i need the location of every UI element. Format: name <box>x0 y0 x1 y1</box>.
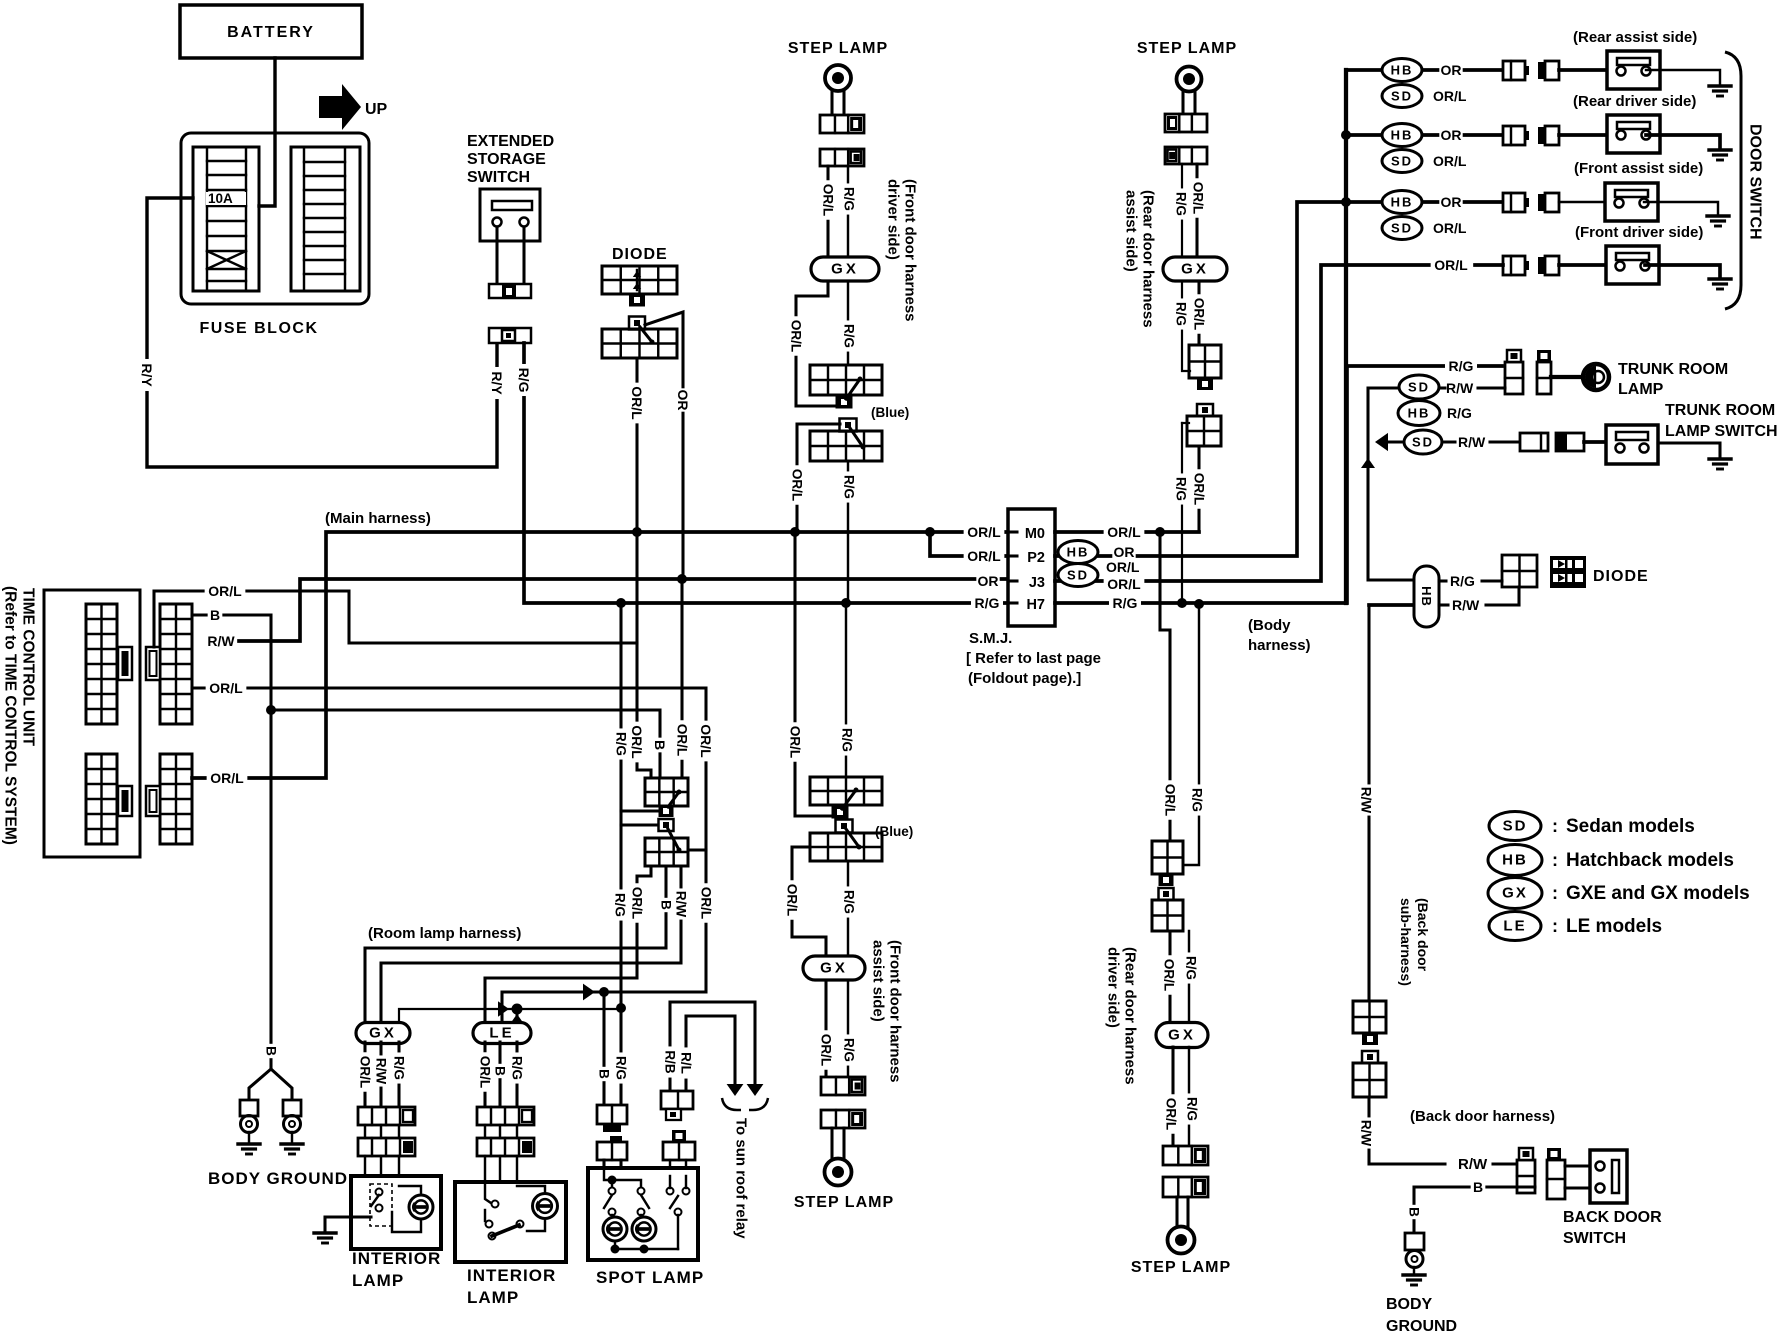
label OR row1 <box>1439 62 1462 80</box>
svg-text:R/W: R/W <box>674 891 689 918</box>
interior lamp 1 label <box>352 1249 441 1290</box>
connector HB trunk <box>1398 401 1440 426</box>
svg-text:R/G: R/G <box>1449 358 1474 374</box>
svg-text:(Foldout page).]: (Foldout page).] <box>968 670 1081 687</box>
chain2 connector lower <box>1187 404 1221 446</box>
back door switch label <box>1563 1209 1662 1247</box>
wire R/W TCU to S.M.J. J3 row <box>205 579 1008 651</box>
wire OR/L from diode to M0 line and room lamp connector <box>629 358 651 778</box>
svg-text:10A: 10A <box>208 191 233 206</box>
arrow sunroof 2 <box>727 1084 744 1096</box>
rear chain connector upper <box>1152 841 1183 886</box>
junction spot lamp B <box>599 987 609 997</box>
wire door row3 <box>1346 200 1503 204</box>
svg-text:R/G: R/G <box>614 1056 629 1080</box>
interior lamp 2 connector 2 <box>477 1138 534 1156</box>
junction R/G chain2 left <box>1177 598 1187 608</box>
junction spot lamp R/G <box>616 1003 626 1013</box>
label R/G GX2 bypass <box>1173 298 1189 329</box>
wire OR/L step lamp 1 to GX <box>820 166 836 257</box>
svg-text:OR/L: OR/L <box>1433 220 1467 236</box>
svg-text:R/Y: R/Y <box>139 363 155 387</box>
wire OR/L P2 <box>930 532 1008 556</box>
wire door row3 to switch <box>1559 201 1605 203</box>
svg-text:(Front door harness: (Front door harness <box>887 940 904 1083</box>
interior lamp connector 1 <box>358 1107 415 1125</box>
label front door harness assist side <box>870 940 904 1083</box>
label main harness <box>325 510 431 527</box>
svg-text:(Rear assist side): (Rear assist side) <box>1573 29 1697 46</box>
svg-text:R/W: R/W <box>1458 1156 1488 1173</box>
wire R/G from storage switch to S.M.J. H7 <box>516 343 1008 603</box>
junction OR/L M0 chain1 <box>790 527 800 537</box>
svg-text:OR/L: OR/L <box>629 386 645 420</box>
wire R/G to GX 4 <box>1183 931 1199 1023</box>
step lamp 4 label <box>1131 1259 1231 1276</box>
svg-text:GX: GX <box>369 1025 397 1042</box>
svg-text:SD: SD <box>1391 89 1413 104</box>
svg-text:HB: HB <box>1391 128 1414 143</box>
label OR/L row3 <box>1433 220 1467 236</box>
label OR/L M0 <box>964 524 1005 542</box>
legend GX <box>1488 878 1750 909</box>
wire B TCU to body ground <box>192 607 271 1042</box>
svg-text:OR/L: OR/L <box>1192 473 1207 505</box>
wire OR/L GX 2 down <box>1191 281 1207 345</box>
room lamp connector lower <box>645 819 688 866</box>
sunroof brace <box>722 1098 768 1110</box>
svg-text:INTERIOR: INTERIOR <box>352 1249 441 1268</box>
diode D2 <box>1550 556 1586 588</box>
svg-text:SD: SD <box>1391 221 1413 236</box>
label R/G HB pill <box>1450 573 1475 589</box>
trunk room lamp switch label <box>1665 402 1778 440</box>
door switch rear driver <box>1607 115 1660 153</box>
svg-text:SD: SD <box>1067 568 1089 583</box>
svg-text:R/G: R/G <box>842 475 857 499</box>
svg-text:OR/L: OR/L <box>698 724 714 758</box>
svg-text:B: B <box>210 607 220 623</box>
chain2 connector upper <box>1189 345 1221 390</box>
wire OR/L chain2 to M0 row <box>1191 446 1207 532</box>
trunk connector 1 <box>1505 350 1523 394</box>
door switch bracket <box>1725 52 1741 309</box>
svg-text:GXE and GX models: GXE and GX models <box>1566 883 1750 904</box>
battery <box>180 5 362 58</box>
wire R/W back door vertical <box>1358 605 1374 1001</box>
svg-text:OR: OR <box>1441 62 1462 78</box>
label rear door harness assist side <box>1123 190 1157 328</box>
svg-text::: : <box>1552 883 1558 903</box>
wire OR/L J3 branch to room lamp connector <box>674 581 690 778</box>
svg-text:R/W: R/W <box>1458 434 1486 450</box>
wire trunk lamp <box>1551 375 1583 379</box>
fuse block <box>181 133 369 304</box>
wire OR/L TCU row3 <box>192 680 714 992</box>
svg-text:R/G: R/G <box>613 893 628 917</box>
blue connector lower <box>810 419 882 462</box>
svg-text:R/G: R/G <box>1185 1097 1200 1121</box>
label fuse block <box>200 320 319 337</box>
svg-text:B: B <box>1407 1207 1422 1217</box>
label front driver side <box>1575 224 1703 241</box>
wire door row2 to switch <box>1559 133 1607 137</box>
label rear door harness driver side <box>1105 947 1139 1085</box>
svg-text:(Body: (Body <box>1248 617 1291 634</box>
wire OR/L step lamp 2 to GX 2 <box>1190 164 1206 258</box>
wires LE to interior lamp connector <box>477 1042 525 1107</box>
label to sun roof relay <box>733 1118 750 1239</box>
svg-text:R/G: R/G <box>842 187 857 211</box>
label R/G H7 <box>971 595 1003 613</box>
wire R/G spot lamp <box>613 1008 629 1105</box>
wire battery to fuse block <box>259 58 275 206</box>
connector LE interior <box>473 1023 531 1044</box>
svg-text:OR/L: OR/L <box>967 524 1001 540</box>
connector HB row1 <box>1382 59 1422 82</box>
wires spot lamp in <box>604 1160 621 1176</box>
svg-text:OR: OR <box>675 390 691 411</box>
trunk switch connector 1 <box>1520 433 1548 451</box>
time control unit harness connectors <box>146 604 192 844</box>
wire R/G H7 to room lamp connector <box>612 603 658 1007</box>
body ground terminal left 2 <box>283 1100 301 1143</box>
svg-text:R/Y: R/Y <box>489 371 505 395</box>
svg-text:GX: GX <box>1181 261 1209 278</box>
step lamp 1 connector <box>820 115 864 133</box>
svg-text:(Main harness): (Main harness) <box>325 510 431 527</box>
svg-text:OR/L: OR/L <box>1433 88 1467 104</box>
junction OR J3 <box>677 574 687 584</box>
label OR row2 <box>1439 127 1462 145</box>
svg-text:OR/L: OR/L <box>1106 559 1140 575</box>
svg-text:R/W: R/W <box>374 1058 389 1085</box>
svg-text:STORAGE: STORAGE <box>467 151 546 168</box>
ground door row1 <box>1709 86 1731 96</box>
legend SD <box>1489 812 1695 841</box>
lower blue connector upper <box>810 777 882 819</box>
junction B <box>266 705 276 715</box>
spot lamp connector 1 <box>597 1105 627 1132</box>
connector SD trunk <box>1399 375 1439 399</box>
ground interior lamp <box>314 1233 336 1243</box>
step lamp 4 <box>1168 1197 1195 1254</box>
ground body right <box>1403 1275 1425 1285</box>
lower blue connector lower <box>810 820 882 862</box>
label R/W trunk <box>1446 380 1474 396</box>
label back door sub-harness <box>1398 898 1431 986</box>
wire R/G bundle line 5 <box>399 1009 621 1024</box>
svg-text:OR/L: OR/L <box>358 1056 373 1088</box>
svg-text:SD: SD <box>1408 380 1430 395</box>
S.M.J. note <box>966 630 1101 687</box>
svg-text:OR: OR <box>1114 544 1135 560</box>
connector GX interior <box>356 1023 410 1044</box>
svg-text:R/B: R/B <box>663 1050 678 1074</box>
door row4 connectors <box>1503 256 1559 275</box>
svg-text:OR/L: OR/L <box>788 726 803 758</box>
legend LE <box>1489 912 1662 941</box>
ground door row3 <box>1707 216 1729 226</box>
wire R/W HB pill <box>1439 603 1519 606</box>
wire OR/L bundle line 4 <box>502 992 604 1024</box>
svg-text:(Blue): (Blue) <box>871 405 909 420</box>
body ground terminal left 1 <box>240 1100 258 1143</box>
connector SD trunk switch <box>1404 430 1442 454</box>
svg-text:R/G: R/G <box>1113 595 1138 611</box>
svg-text:BODY: BODY <box>1386 1296 1433 1313</box>
spot lamp connector 3 <box>661 1091 693 1120</box>
svg-text:STEP LAMP: STEP LAMP <box>1131 1259 1231 1276</box>
door switch front assist <box>1605 183 1658 221</box>
svg-text:OR/L: OR/L <box>1164 1098 1179 1130</box>
wire R/G GX3 to step lamp connector <box>841 981 857 1077</box>
svg-text:R/G: R/G <box>1450 573 1475 589</box>
diode D2 label <box>1593 568 1649 585</box>
junction OR/L diode-M0 <box>632 527 642 537</box>
svg-text:To sun roof relay: To sun roof relay <box>733 1118 750 1239</box>
wire R/G lower blue to GX 3 <box>841 861 857 956</box>
wire B to body ground split <box>249 1042 292 1100</box>
diode D1 <box>602 266 677 307</box>
wires GX to interior lamp connector <box>357 1042 407 1107</box>
svg-text:OR: OR <box>1441 127 1462 143</box>
svg-text:BATTERY: BATTERY <box>227 24 315 41</box>
wire OR P2 to door switch bus <box>1055 202 1346 556</box>
svg-text:B: B <box>652 740 668 750</box>
step lamp 4 harness connector <box>1163 1146 1208 1165</box>
svg-text:(Room lamp harness): (Room lamp harness) <box>368 925 521 942</box>
connector HB row3 <box>1382 191 1422 214</box>
svg-text:DIODE: DIODE <box>1593 568 1649 585</box>
blue connector upper <box>810 365 882 409</box>
step lamp 2 connector <box>1165 114 1207 132</box>
svg-text:TRUNK ROOM: TRUNK ROOM <box>1618 361 1728 378</box>
svg-text:SD: SD <box>1391 154 1413 169</box>
svg-text:FUSE BLOCK: FUSE BLOCK <box>200 320 319 337</box>
arrow sunroof 1 <box>747 1084 764 1096</box>
svg-text:LE models: LE models <box>1566 916 1662 937</box>
label OR/L row4 <box>1431 257 1472 275</box>
svg-text:HB: HB <box>1067 545 1090 560</box>
interior lamp 1 <box>351 1176 441 1249</box>
arrow bundle line 4 <box>583 984 595 1001</box>
wire OR/L door bus down to rear step lamp chain <box>1160 532 1178 841</box>
wire OR/L TCU row4 main harness to S.M.J. M0 <box>192 532 1008 788</box>
svg-text:HB: HB <box>1419 586 1434 607</box>
door row2 connectors <box>1503 126 1559 145</box>
interior lamp 2 <box>455 1182 566 1262</box>
svg-text:B: B <box>264 1046 279 1056</box>
wire R/G GX4 to step lamp 4 <box>1184 1047 1200 1146</box>
wire R/W row to HB pill <box>1369 603 1414 607</box>
svg-text:J3: J3 <box>1029 575 1045 591</box>
door switch rear assist <box>1607 51 1660 89</box>
back door connector upper <box>1353 1001 1386 1045</box>
svg-text:R/G: R/G <box>1174 192 1189 216</box>
wires spot lamp in right <box>670 1160 686 1176</box>
label OR/L row2 <box>1433 153 1467 169</box>
svg-text:LAMP: LAMP <box>467 1288 519 1307</box>
svg-text:HB: HB <box>1391 63 1414 78</box>
svg-text:DOOR SWITCH: DOOR SWITCH <box>1747 124 1764 240</box>
wire OR/L bundle line 3 <box>485 866 651 1024</box>
svg-text:Sedan models: Sedan models <box>1566 816 1695 837</box>
svg-text:HB: HB <box>1408 406 1431 421</box>
wire R/W vertical A <box>1368 388 1414 580</box>
svg-text:R/G: R/G <box>842 890 857 914</box>
wire door row2 <box>1346 133 1503 137</box>
connector GX 3 <box>803 956 865 980</box>
body ground left label <box>208 1169 348 1188</box>
label front door harness driver side <box>885 179 919 322</box>
ground door row2 <box>1709 150 1731 160</box>
wire B spot lamp <box>596 992 612 1105</box>
body ground right label <box>1386 1296 1457 1335</box>
door row3 connectors <box>1503 193 1559 212</box>
svg-text:OR/L: OR/L <box>1107 524 1141 540</box>
svg-text:S.M.J.: S.M.J. <box>969 630 1012 647</box>
svg-text:R/W: R/W <box>1359 1120 1374 1147</box>
UP direction arrow <box>319 84 388 130</box>
wire OR from diode to S.M.J. J3 line <box>645 312 691 581</box>
label OR J3 <box>976 573 999 591</box>
back door connector A <box>1517 1148 1535 1193</box>
spot lamp label <box>596 1268 704 1287</box>
svg-text:R/L: R/L <box>679 1052 694 1074</box>
interior lamp connector 2 <box>358 1138 415 1156</box>
diode label <box>612 246 668 263</box>
junction door bus row3 <box>1341 197 1351 207</box>
interior lamp 2 connector 1 <box>477 1107 534 1125</box>
ground trunk switch <box>1709 459 1731 469</box>
arrow up vertical A <box>1361 458 1375 468</box>
wire SD R/W trunk <box>1369 386 1505 389</box>
door switch bus <box>1344 70 1348 603</box>
label body harness <box>1248 617 1311 654</box>
svg-text:LAMP SWITCH: LAMP SWITCH <box>1665 423 1778 440</box>
svg-text:SWITCH: SWITCH <box>1563 1230 1626 1247</box>
wire R/G blue connector to H7 line <box>841 461 857 603</box>
step lamp 3 connector <box>821 1110 865 1128</box>
wire R/G HB pill <box>1439 579 1502 582</box>
connector HB P2 <box>1058 541 1136 564</box>
step lamp 3 harness connector <box>821 1077 865 1095</box>
svg-text:OR/L: OR/L <box>1434 257 1468 273</box>
label blue 1 <box>871 405 909 420</box>
spot lamp <box>588 1168 698 1260</box>
junction LE R/G <box>512 1004 523 1015</box>
svg-text:STEP LAMP: STEP LAMP <box>788 40 888 57</box>
label rear driver side <box>1573 93 1696 110</box>
spot lamp connector 2 <box>597 1136 627 1160</box>
svg-text:Hatchback models: Hatchback models <box>1566 850 1734 871</box>
svg-text:H7: H7 <box>1026 597 1045 613</box>
svg-text:M0: M0 <box>1025 526 1045 542</box>
svg-text:(Rear door harness: (Rear door harness <box>1122 947 1139 1085</box>
svg-text:OR/L: OR/L <box>478 1056 493 1088</box>
trunk room lamp label <box>1618 361 1728 398</box>
S.M.J. junction block <box>1008 509 1055 626</box>
label blue 2 <box>875 824 913 839</box>
label front assist side <box>1574 160 1703 177</box>
wire door row4 ground <box>1645 265 1720 277</box>
svg-text:R/G: R/G <box>975 595 1000 611</box>
svg-text:R/G: R/G <box>1184 956 1199 980</box>
svg-text:UP: UP <box>365 101 388 118</box>
wire OR/L GX3 to step lamp connector <box>818 981 834 1077</box>
svg-text:driver side): driver side) <box>1105 947 1122 1028</box>
svg-text:(Front driver side): (Front driver side) <box>1575 224 1703 241</box>
junction door bus row2 <box>1341 130 1351 140</box>
svg-text:GX: GX <box>820 960 848 977</box>
connector GX 1 <box>811 257 879 281</box>
svg-text:OR/L: OR/L <box>675 724 690 756</box>
room lamp connector upper <box>645 778 688 817</box>
svg-text:B: B <box>659 900 674 910</box>
svg-text:sub-harness): sub-harness) <box>1398 898 1414 986</box>
wires connector to interior lamp 2 <box>485 1125 517 1199</box>
wire R/Y fuse to extended storage switch <box>139 198 505 467</box>
wire B back door to body ground <box>1406 1179 1535 1233</box>
wire door row2 ground <box>1646 135 1720 148</box>
wire to trunk switch <box>1584 440 1606 444</box>
label OR/L row1 <box>1433 88 1467 104</box>
trunk switch connector 2 <box>1556 433 1584 451</box>
junction R/G H7 chain1 <box>841 598 851 608</box>
wire back door switch links <box>1565 1166 1590 1188</box>
step lamp 2 label <box>1137 40 1237 57</box>
label back door harness <box>1410 1108 1555 1125</box>
connector GX 2 <box>1163 257 1227 281</box>
svg-text:R/G: R/G <box>842 324 857 348</box>
svg-text:OR/L: OR/L <box>1433 153 1467 169</box>
svg-text:(Front assist side): (Front assist side) <box>1574 160 1703 177</box>
svg-text:OR/L: OR/L <box>967 548 1001 564</box>
connector 2 below storage switch <box>489 328 531 343</box>
svg-text:(Back door: (Back door <box>1415 898 1431 972</box>
svg-text:LAMP: LAMP <box>352 1271 404 1290</box>
connector SD row3 <box>1382 217 1422 240</box>
wire B bundle line 1 <box>365 866 674 1024</box>
svg-text:OR/L: OR/L <box>630 887 645 919</box>
svg-text:OR/L: OR/L <box>1163 784 1178 816</box>
svg-text:LE: LE <box>1503 918 1526 935</box>
wire door row4 to switch <box>1475 263 1606 267</box>
step lamp 4 connector <box>1163 1177 1208 1197</box>
trunk connector 2 <box>1537 350 1551 394</box>
wire OR/L lower blue to GX 3 <box>784 847 826 956</box>
wire OR/L M0 right row <box>1055 524 1199 542</box>
svg-text:R/W: R/W <box>1446 380 1474 396</box>
svg-text:(Rear driver side): (Rear driver side) <box>1573 93 1696 110</box>
connector SD row2 <box>1382 150 1422 173</box>
extended storage switch <box>480 189 540 241</box>
label R/W trunk switch <box>1458 434 1486 450</box>
svg-text:STEP LAMP: STEP LAMP <box>794 1194 894 1211</box>
svg-text:LE: LE <box>489 1025 514 1042</box>
svg-text:R/G: R/G <box>516 368 532 393</box>
back door switch <box>1590 1150 1627 1203</box>
svg-text:INTERIOR: INTERIOR <box>467 1266 556 1285</box>
svg-text:R/G: R/G <box>392 1056 407 1080</box>
svg-text:OR/L: OR/L <box>1107 576 1141 592</box>
svg-text:B: B <box>597 1069 612 1079</box>
arrow into vertical A <box>1375 433 1406 451</box>
trunk room lamp <box>1583 364 1609 390</box>
step lamp 3 label <box>794 1194 894 1211</box>
svg-text:B: B <box>1473 1179 1483 1195</box>
